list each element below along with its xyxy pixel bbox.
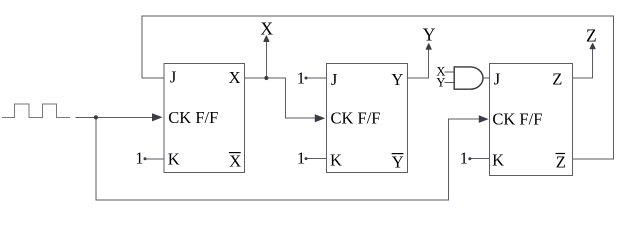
flip-flop U2 box [326, 63, 407, 172]
wire FF1 K input [145, 158, 164, 160]
svg-text:1: 1 [460, 149, 468, 168]
junction dot 1 FF2 J [305, 77, 308, 80]
svg-text:CK F/F: CK F/F [168, 108, 218, 127]
flip-flop U1 box [164, 64, 245, 173]
arrowhead FF2 CK [315, 114, 325, 122]
wire FF2 K input [306, 158, 326, 160]
svg-text:X: X [229, 151, 241, 170]
wire FF3 K input [470, 158, 490, 160]
overline Zbar U3 [556, 153, 566, 155]
wire FF2 J input [306, 77, 326, 79]
junction dot 1 FF1 K [144, 157, 147, 160]
svg-text:X: X [229, 68, 241, 87]
svg-text:CK F/F: CK F/F [492, 110, 542, 129]
svg-text:Z: Z [556, 153, 566, 172]
arrowhead FF3 CK [479, 115, 489, 123]
arrowhead FF1 CK [152, 113, 163, 121]
wire clock branch down [96, 117, 480, 200]
junction node X [264, 76, 268, 80]
junction clock node [94, 115, 98, 119]
junction dot 1 FF2 K [305, 157, 308, 160]
svg-text:J: J [331, 70, 338, 89]
arrowhead node Z up [590, 44, 595, 49]
svg-text:J: J [494, 70, 501, 89]
svg-text:Z: Z [552, 70, 562, 89]
flip-flop U3 box [490, 63, 573, 175]
svg-text:1: 1 [297, 149, 305, 168]
svg-text:Y: Y [436, 76, 445, 90]
overline Ybar U2 [392, 153, 404, 155]
wire AND gate input Y stub [445, 81, 455, 83]
wire FF2 Y output up to label Y [408, 49, 429, 78]
svg-text:X: X [260, 18, 273, 38]
svg-text:Y: Y [392, 152, 404, 171]
svg-text:K: K [168, 150, 180, 169]
svg-text:Y: Y [391, 70, 403, 89]
wire FF1 X output to FF2 CK [245, 78, 316, 118]
svg-text:1: 1 [297, 69, 305, 88]
wire AND gate input X stub [445, 71, 455, 73]
overline Xbar U1 [229, 152, 241, 154]
clock waveform [2, 104, 70, 118]
wire top feedback from Zbar [142, 16, 614, 159]
junction dot 1 FF3 K [468, 157, 471, 160]
wire clock to FF1 CK [76, 116, 154, 118]
svg-text:Z: Z [586, 25, 597, 45]
svg-text:CK F/F: CK F/F [331, 109, 381, 128]
arrowhead node Y up [426, 44, 431, 49]
AND gate G1 [454, 67, 483, 89]
svg-text:K: K [330, 151, 342, 170]
wire AND gate output to FF3 J [483, 77, 490, 79]
svg-text:K: K [492, 151, 504, 170]
svg-text:1: 1 [135, 149, 143, 168]
arrowhead node X up [264, 36, 269, 41]
svg-text:J: J [170, 68, 177, 87]
svg-text:Y: Y [423, 24, 436, 44]
wire FF3 Z output up to label Z [573, 49, 593, 79]
wire FF1 J input [142, 77, 164, 79]
wire node X up branch [265, 41, 267, 79]
